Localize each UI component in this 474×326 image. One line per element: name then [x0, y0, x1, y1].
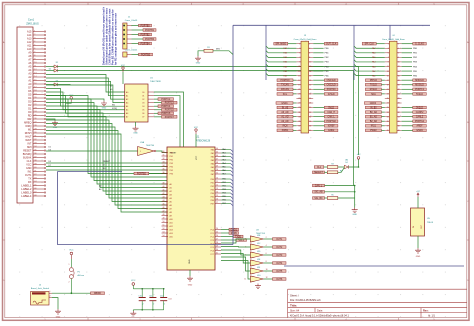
- svg-text:24: 24: [309, 94, 311, 96]
- svg-text:OUT4: OUT4: [276, 263, 283, 265]
- svg-text:7: 7: [388, 57, 389, 59]
- svg-text:16: 16: [309, 75, 311, 77]
- global label CL1: [314, 166, 324, 169]
- wire J4 row18 left: [381, 125, 384, 127]
- connector J3 Conn_02x20_Odd_Even: [294, 35, 318, 133]
- wire J3 bus entry row4: [266, 60, 296, 62]
- svg-text:CANL2: CANL2: [416, 116, 424, 119]
- svg-text:PB3: PB3: [222, 189, 226, 191]
- wire A1 to U1 input: [46, 78, 125, 96]
- svg-text:17: 17: [298, 80, 300, 82]
- svg-text:MISOLD: MISOLD: [415, 80, 424, 82]
- svg-text:PB4: PB4: [222, 193, 226, 195]
- wire J4 bus entry row7: [354, 73, 385, 75]
- wire U2 GND: [189, 270, 191, 276]
- global label TXCAN: [277, 83, 293, 86]
- svg-text:DB000: DB000: [94, 293, 102, 295]
- wire J3 row5 right: [313, 66, 323, 68]
- svg-text:44: 44: [216, 148, 218, 150]
- fuse F1: [69, 259, 85, 293]
- svg-text:17: 17: [34, 86, 36, 88]
- global label PORTB1: [143, 29, 156, 32]
- global label PORTB5: [139, 53, 153, 56]
- svg-text:31: 31: [216, 253, 218, 255]
- wire J1 pin3: [132, 34, 139, 36]
- svg-text:21: 21: [298, 89, 300, 91]
- svg-text:PA3: PA3: [211, 159, 214, 162]
- svg-text:PORTC3: PORTC3: [165, 103, 175, 105]
- svg-text:PA5: PA5: [222, 166, 225, 169]
- svg-text:PA6: PA6: [211, 169, 214, 172]
- svg-text:37: 37: [298, 125, 300, 127]
- svg-text:29: 29: [216, 246, 218, 248]
- capacitor C10: [138, 289, 145, 310]
- svg-text:14: 14: [309, 71, 311, 73]
- svg-text:A-Fuse: A-Fuse: [78, 274, 85, 277]
- svg-text:36: 36: [163, 172, 165, 174]
- svg-text:4: 4: [309, 48, 310, 50]
- svg-text:16: 16: [34, 83, 36, 85]
- svg-text:R3: R3: [331, 163, 333, 165]
- svg-text:PB0: PB0: [222, 179, 226, 181]
- Con1 pins 1-48: [21, 30, 45, 198]
- svg-text:PE2: PE2: [170, 159, 173, 161]
- wire PC1: [221, 232, 229, 234]
- svg-text:6: 6: [34, 48, 35, 50]
- wire J4 row9 right: [402, 84, 413, 86]
- global label SDA: [365, 93, 381, 96]
- U2 right pins PC0-PC7: [211, 228, 222, 256]
- svg-text:27: 27: [216, 239, 218, 241]
- diode D1: [54, 65, 57, 68]
- title block text: [290, 293, 436, 317]
- svg-text:GND3: GND3: [370, 103, 377, 105]
- svg-text:3: 3: [34, 37, 35, 39]
- svg-text:O0: O0: [142, 92, 144, 94]
- svg-text:GND: GND: [188, 285, 193, 287]
- svg-text:5: 5: [34, 44, 35, 46]
- svg-text:PORTC6: PORTC6: [161, 113, 171, 115]
- svg-text:7: 7: [299, 57, 300, 59]
- global label SPI_MISO: [274, 42, 288, 45]
- ground near Con1: [52, 121, 58, 130]
- wire cap top rail: [133, 288, 163, 290]
- svg-text:5: 5: [299, 53, 300, 55]
- wire J4 row5 right: [402, 66, 412, 68]
- svg-text:51: 51: [216, 173, 218, 175]
- global label PORTC3: [162, 101, 178, 104]
- global label IOREF: [324, 125, 338, 128]
- svg-text:RESET: RESET: [103, 161, 111, 163]
- svg-text:PB0: PB0: [211, 179, 214, 181]
- wire J4 row3 right: [402, 56, 412, 58]
- wire J3 row13 left: [293, 102, 296, 104]
- svg-text:O7: O7: [142, 117, 144, 119]
- svg-text:6: 6: [309, 53, 310, 55]
- svg-text:A8: A8: [170, 211, 172, 214]
- wire J4 bus entry row2: [354, 51, 385, 53]
- svg-text:A2: A2: [170, 190, 172, 193]
- wire U3F output: [264, 270, 273, 272]
- svg-text:20: 20: [34, 97, 36, 99]
- U2 left pins: [162, 151, 173, 238]
- global label CAN_L: [324, 115, 338, 118]
- wire J3 row10 left: [293, 88, 296, 90]
- wire GND stub: [46, 99, 104, 101]
- svg-text:1N4: 1N4: [345, 160, 348, 162]
- svg-text:RXCAN: RXCAN: [281, 88, 289, 91]
- global label OUT1: [273, 238, 287, 241]
- svg-text:Size: A4: Size: A4: [290, 310, 300, 313]
- svg-text:32: 32: [398, 112, 400, 114]
- svg-text:PC2: PC2: [211, 236, 215, 238]
- wire U1A out to U2 RESET: [156, 151, 167, 153]
- svg-text:GND4: GND4: [416, 130, 423, 132]
- global label OUT5: [273, 270, 287, 273]
- wire J3 bus entry row5: [266, 64, 296, 66]
- svg-text:10: 10: [398, 62, 400, 64]
- wire VCC stub: [66, 102, 71, 104]
- gate U3F: [245, 267, 267, 274]
- svg-text:11: 11: [387, 66, 389, 68]
- svg-text:A10: A10: [170, 218, 173, 221]
- svg-text:PB7: PB7: [211, 203, 214, 205]
- svg-text:PC0: PC0: [211, 229, 215, 231]
- global label B2_AD: [365, 120, 381, 123]
- wire J3 bus entry row6: [266, 69, 296, 71]
- svg-text:U1A: U1A: [140, 141, 145, 144]
- svg-text:PA4: PA4: [222, 162, 225, 165]
- svg-text:A2: A2: [126, 98, 128, 101]
- global label GND3: [364, 102, 381, 105]
- svg-text:O2: O2: [142, 99, 144, 101]
- svg-text:47: 47: [34, 191, 36, 193]
- wire staircase 3 to U2: [46, 103, 167, 181]
- global label OUT_CLK: [324, 42, 338, 45]
- wire to GND: [132, 310, 134, 311]
- svg-text:14: 14: [216, 192, 218, 194]
- bus stub left: [58, 171, 123, 173]
- svg-text:39: 39: [34, 163, 36, 165]
- svg-text:GND: GND: [56, 317, 61, 319]
- svg-text:PB2: PB2: [222, 186, 226, 188]
- svg-text:31: 31: [163, 155, 165, 157]
- svg-text:GND: GND: [53, 127, 58, 129]
- svg-text:PORTB2: PORTB2: [141, 34, 151, 36]
- svg-text:A0: A0: [126, 91, 128, 94]
- svg-text:D1: D1: [56, 62, 58, 64]
- svg-text:LABEL1: LABEL1: [21, 183, 32, 187]
- svg-text:48: 48: [216, 162, 218, 164]
- svg-text:3: 3: [388, 48, 389, 50]
- svg-text:PB6: PB6: [211, 200, 214, 202]
- svg-text:B0_AD: B0_AD: [370, 111, 378, 114]
- svg-text:13: 13: [34, 72, 36, 74]
- wire J4 row17 left: [381, 120, 384, 122]
- svg-text:PORTC2: PORTC2: [161, 99, 171, 101]
- wire J1 pin5: [132, 43, 139, 45]
- power flag VCC for fuse: [69, 249, 74, 259]
- svg-text:SIG_BC: SIG_BC: [314, 198, 323, 200]
- svg-text:PB6: PB6: [222, 200, 226, 202]
- wire R5 to junction: [338, 197, 355, 199]
- diode D4: [344, 160, 348, 169]
- svg-text:17: 17: [216, 202, 218, 204]
- global label OUT4: [273, 262, 287, 265]
- svg-text:PORTB1: PORTB1: [145, 30, 155, 32]
- wire J4 row17 right: [402, 120, 413, 122]
- U2 right pins PA0-PA7 with bus entries: [211, 148, 233, 176]
- svg-text:34: 34: [163, 165, 165, 167]
- svg-text:22: 22: [398, 89, 400, 91]
- svg-text:PA7: PA7: [211, 173, 214, 176]
- svg-text:2: 2: [34, 34, 35, 36]
- svg-text:IN_A0: IN_A0: [282, 106, 289, 109]
- svg-text:35: 35: [298, 121, 300, 123]
- resistor R5: [327, 194, 338, 199]
- svg-text:52: 52: [163, 228, 165, 230]
- svg-text:45: 45: [34, 184, 36, 186]
- global label IRQ0: [277, 125, 293, 128]
- wire PC0 to U3B: [221, 239, 250, 243]
- svg-text:36: 36: [309, 121, 311, 123]
- svg-text:46: 46: [34, 188, 36, 190]
- svg-text:A1: A1: [126, 94, 128, 97]
- wire J4 row15 left: [381, 111, 384, 113]
- power flag VCC for caps: [131, 280, 136, 289]
- svg-text:R1: R1: [207, 47, 209, 49]
- wire J4 row16 left: [381, 116, 384, 118]
- wire J3 pin2: [313, 43, 324, 45]
- svg-text:32: 32: [34, 139, 36, 141]
- gate U3B: [245, 235, 266, 242]
- wire J2 pin: [132, 54, 139, 56]
- svg-text:A13: A13: [170, 228, 173, 231]
- svg-text:1: 1: [388, 43, 389, 45]
- wire J3 bus entry row3: [266, 55, 296, 57]
- svg-text:Conn_01x01: Conn_01x01: [125, 50, 138, 52]
- svg-text:44: 44: [163, 200, 165, 202]
- svg-text:A5: A5: [126, 109, 128, 112]
- svg-text:22: 22: [34, 104, 36, 106]
- svg-text:28: 28: [216, 242, 218, 244]
- svg-text:2: 2: [164, 303, 165, 305]
- svg-text:+CC: +CC: [416, 191, 421, 193]
- wire U1 O5: [154, 109, 162, 111]
- svg-text:O1: O1: [142, 95, 144, 97]
- ground for caps: [130, 311, 136, 316]
- svg-text:40: 40: [309, 130, 311, 132]
- wire staircase 11 to U2: [46, 131, 167, 209]
- svg-text:2: 2: [50, 296, 51, 298]
- wire J4 row19 left: [381, 129, 384, 131]
- wire PC4 to U3F: [221, 257, 250, 271]
- svg-text:A6: A6: [170, 204, 172, 207]
- wire staircase 6 to U2: [46, 113, 167, 191]
- bus horizontal top: [233, 24, 430, 26]
- svg-text:PB5: PB5: [211, 196, 214, 198]
- svg-text:MOSILD: MOSILD: [415, 85, 424, 87]
- global label CANH2: [413, 111, 427, 114]
- IC U2 AT90CAN128: [167, 137, 215, 270]
- wire J4 pin1: [376, 43, 385, 45]
- svg-text:9: 9: [299, 62, 300, 64]
- svg-text:50: 50: [216, 169, 218, 171]
- svg-text:31: 31: [298, 112, 300, 114]
- gate U3G: [244, 275, 267, 282]
- connector J4 Conn_02x20_Odd_Even: [382, 35, 406, 133]
- svg-text:D1: D1: [49, 147, 51, 149]
- svg-text:PWR2: PWR2: [370, 130, 377, 132]
- svg-text:A11: A11: [170, 221, 173, 224]
- svg-text:A4: A4: [170, 197, 172, 200]
- wire A0 to U1 input: [46, 75, 125, 93]
- svg-text:GND: GND: [416, 256, 421, 258]
- global label PB7LD: [365, 79, 381, 82]
- svg-text:2: 2: [153, 303, 154, 305]
- svg-text:12: 12: [34, 69, 36, 71]
- svg-text:PORTD0: PORTD0: [280, 80, 290, 82]
- svg-text:15: 15: [34, 79, 36, 81]
- svg-text:PORTC4: PORTC4: [161, 106, 171, 108]
- svg-text:R5: R5: [331, 194, 333, 196]
- svg-text:1: 1: [299, 43, 300, 45]
- svg-text:OUT_CLK: OUT_CLK: [326, 44, 337, 46]
- global label MOSILD: [413, 83, 427, 86]
- wire staircase 9 to U2: [46, 124, 167, 202]
- svg-text:A15: A15: [170, 235, 173, 238]
- svg-text:48: 48: [34, 195, 36, 197]
- global label SELECT: [313, 171, 325, 174]
- wire J3 bus entry row7: [266, 73, 296, 75]
- diode D2: [54, 69, 57, 72]
- svg-text:PORTG0: PORTG0: [327, 121, 337, 123]
- svg-text:29: 29: [34, 128, 36, 130]
- wire J3 row4 right: [313, 61, 323, 63]
- svg-text:LABEL2: LABEL2: [21, 187, 32, 191]
- svg-text:GND: GND: [352, 214, 357, 216]
- svg-text:40: 40: [34, 167, 36, 169]
- resistor R1: [204, 47, 213, 52]
- wire J1 pin4: [132, 38, 144, 40]
- global label RXCAN: [277, 88, 293, 91]
- wire U1 O1 to U2 top: [154, 96, 180, 147]
- svg-text:PE5: PE5: [170, 170, 173, 172]
- svg-text:35: 35: [387, 121, 389, 123]
- svg-text:A7: A7: [126, 116, 128, 119]
- svg-text:PA4: PA4: [211, 162, 214, 165]
- svg-text:17: 17: [387, 80, 389, 82]
- svg-text:PC7: PC7: [211, 254, 215, 256]
- svg-text:PORTF1: PORTF1: [415, 89, 425, 91]
- ground for pull-down group: [352, 208, 358, 217]
- wire U1 O3: [154, 102, 162, 104]
- svg-text:GND: GND: [133, 133, 138, 135]
- bus vertical main: [232, 25, 234, 244]
- svg-text:3V2LD: 3V2LD: [416, 107, 423, 109]
- svg-text:LABEL4: LABEL4: [21, 194, 32, 198]
- svg-text:30: 30: [216, 249, 218, 251]
- svg-text:GND2: GND2: [328, 130, 335, 132]
- wire U1 O4: [154, 105, 158, 107]
- svg-text:SCL: SCL: [283, 94, 288, 96]
- global label PORTF0: [324, 88, 338, 91]
- svg-text:PORTB4: PORTB4: [141, 43, 151, 45]
- wire J3 bus entry row2: [266, 51, 296, 53]
- svg-text:49: 49: [163, 218, 165, 220]
- svg-text:78L05: 78L05: [427, 222, 434, 224]
- global label GND2: [324, 129, 338, 132]
- capacitor C12: [160, 289, 167, 310]
- wire U1 O7: [154, 116, 162, 118]
- svg-text:PE6: PE6: [170, 173, 173, 175]
- svg-text:SPI_MISO: SPI_MISO: [275, 44, 286, 46]
- svg-text:30: 30: [34, 132, 36, 134]
- wire to D1: [46, 66, 54, 68]
- svg-text:3: 3: [299, 48, 300, 50]
- global label TX2LD: [365, 83, 381, 86]
- svg-text:VCC: VCC: [121, 65, 126, 67]
- wire J4 bus entry row4: [354, 60, 385, 62]
- svg-text:42: 42: [163, 193, 165, 195]
- wire A7 to U1 input: [46, 99, 125, 117]
- wire U5 to GND: [417, 236, 419, 248]
- wire J4 row15 right: [402, 111, 413, 113]
- svg-text:PB2: PB2: [211, 186, 214, 188]
- svg-text:18: 18: [398, 80, 400, 82]
- svg-text:CAN_L: CAN_L: [328, 116, 336, 119]
- global label 3V2LD: [413, 106, 427, 109]
- svg-text:51: 51: [163, 225, 165, 227]
- wire A4 to U1 input: [46, 89, 125, 107]
- wire J3 row11 right: [313, 93, 324, 95]
- wire PC2 to U3D: [221, 250, 250, 255]
- wire J4 bus entry row5: [354, 64, 385, 66]
- svg-text:PC6: PC6: [211, 250, 215, 252]
- wire J3 row15 left: [293, 111, 296, 113]
- svg-text:LABEL3: LABEL3: [21, 190, 32, 194]
- wire long run to pull-down row: [57, 71, 353, 186]
- wire cap bottom rail: [133, 309, 163, 311]
- svg-text:25: 25: [34, 114, 36, 116]
- wire PC1 to U3C: [221, 246, 250, 249]
- svg-text:PA1: PA1: [211, 152, 214, 155]
- svg-text:23: 23: [298, 94, 300, 96]
- ground for J5: [55, 309, 61, 314]
- svg-text:A6: A6: [126, 112, 128, 115]
- svg-text:1: 1: [140, 151, 141, 153]
- wire PC5 to U3G: [221, 261, 250, 280]
- svg-text:CANH2: CANH2: [416, 111, 424, 114]
- wire J4 pin2: [402, 43, 413, 45]
- global label PORTC7: [162, 116, 178, 119]
- wire U3E output: [264, 262, 273, 264]
- gate U3C: [245, 243, 266, 250]
- svg-text:28: 28: [34, 125, 36, 127]
- svg-text:PORTB0: PORTB0: [141, 25, 151, 27]
- wire J3 row14 left: [293, 107, 296, 109]
- svg-text:PB5: PB5: [222, 196, 226, 198]
- svg-text:A1_AD: A1_AD: [281, 116, 289, 119]
- wire junction vertical: [354, 186, 356, 208]
- svg-text:PWR1: PWR1: [282, 130, 289, 132]
- svg-text:9: 9: [388, 62, 389, 64]
- wire to U1A input: [46, 150, 138, 152]
- svg-text:A3: A3: [170, 193, 172, 196]
- global label CAN_L: [313, 184, 325, 187]
- svg-text:41: 41: [34, 170, 36, 172]
- wire J3 row3 right: [313, 56, 323, 58]
